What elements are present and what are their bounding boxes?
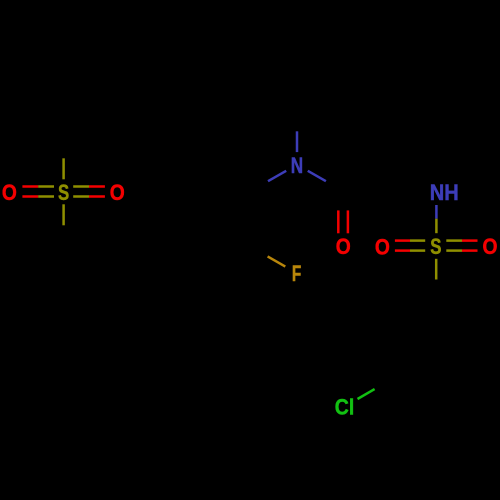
svg-text:O: O [375, 234, 390, 259]
bond C=O3 (O half) [337, 210, 340, 233]
bond S1=O2 (O half) [89, 195, 105, 198]
svg-text:N: N [291, 153, 303, 178]
bond NH-S2 (S half) [435, 219, 438, 234]
bond S1=O2 (S half) [73, 195, 89, 198]
bond S2=O5 (S half) [446, 249, 462, 252]
bond N1-C carbonyl (N half) [308, 171, 326, 181]
bond S1=O1 (O half) [22, 185, 38, 188]
svg-text:O: O [2, 180, 17, 205]
bond S2=O4 (S half) [410, 249, 425, 252]
bond S1-CH3 (S half) [62, 158, 65, 179]
svg-text:F: F [292, 261, 301, 286]
svg-text:Cl: Cl [335, 395, 355, 420]
bond S2-C ring (S half) [435, 259, 438, 280]
svg-text:O: O [483, 234, 498, 259]
svg-text:S: S [58, 180, 69, 205]
bond S1=O2 (S half) [73, 185, 89, 188]
bond S1-C ring (S half) [62, 204, 65, 225]
bond S2=O4 (S half) [410, 239, 425, 242]
bond C=O3 (O half) [347, 210, 350, 233]
svg-text:O: O [110, 180, 125, 205]
bond N1-CH3 (N half) [296, 131, 299, 152]
bond S1=O2 (O half) [89, 185, 105, 188]
bond S2=O5 (S half) [446, 239, 462, 242]
bond NH-S2 (N half) [435, 205, 438, 219]
bond S2=O4 (O half) [395, 239, 410, 242]
bond S2=O5 (O half) [462, 249, 478, 252]
svg-text:NH: NH [430, 180, 459, 205]
bond S1=O1 (S half) [38, 195, 54, 198]
bond S1=O1 (S half) [38, 185, 54, 188]
bond S2=O4 (O half) [395, 249, 410, 252]
svg-text:O: O [336, 234, 351, 259]
bond C-F (F half) [268, 256, 286, 266]
bond S2=O5 (O half) [462, 239, 478, 242]
svg-text:S: S [430, 234, 441, 259]
bond N1-Cring (N half) [268, 171, 286, 181]
bond S1=O1 (O half) [22, 195, 38, 198]
bond C-Cl (Cl half) [358, 389, 375, 399]
